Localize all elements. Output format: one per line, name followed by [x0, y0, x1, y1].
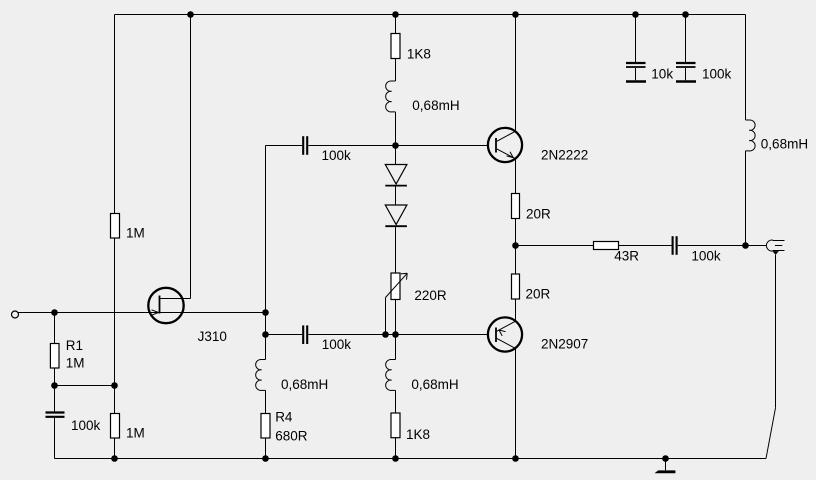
node junction ground — [662, 455, 669, 462]
wire JFET source line — [160, 312, 266, 314]
wire npn emitter drop — [515, 159, 517, 194]
svg-text:0,68mH: 0,68mH — [281, 377, 328, 392]
node junction R1/cap — [51, 382, 58, 389]
wire 43R to cap — [619, 245, 672, 247]
capacitor 100k (mid coupling) — [303, 325, 351, 352]
wire left drop lower — [114, 386, 116, 414]
svg-text:100k: 100k — [691, 248, 721, 263]
node junction 10k cap top — [632, 11, 639, 18]
wire pnp collector drop — [515, 348, 517, 458]
wire drain riser — [190, 15, 192, 299]
wire 1K8 lower to rail — [395, 438, 397, 459]
transistor Q2 2N2907 — [488, 317, 588, 351]
resistor 20R (lower) — [512, 274, 551, 302]
wire pnp base row right — [308, 334, 487, 336]
resistor R1 1M — [50, 338, 84, 371]
wire source column to coil — [265, 335, 267, 360]
wire right column lower — [745, 151, 747, 246]
resistor 1M (left upper) — [111, 214, 145, 241]
wire output node to 43R — [516, 245, 594, 247]
wire right column upper — [745, 15, 747, 121]
svg-text:R4: R4 — [275, 409, 293, 424]
svg-text:43R: 43R — [614, 248, 639, 263]
wire R1 bottom lead — [54, 368, 56, 386]
node junction wiper — [382, 331, 389, 338]
wire mid column to coil2 — [395, 335, 397, 360]
wire 10k cap riser — [635, 15, 637, 63]
node junction bottom mid column — [392, 455, 399, 462]
wire input to gate — [18, 312, 159, 314]
wire 20R to output node — [515, 219, 517, 246]
wire cap row left — [266, 145, 303, 147]
node junction input/R1 — [51, 309, 58, 316]
svg-text:220R: 220R — [414, 288, 447, 303]
node input terminal — [12, 311, 19, 318]
svg-text:100k: 100k — [322, 337, 352, 352]
inductor 0,68mH (right) — [746, 120, 809, 151]
svg-text:0,68mH: 0,68mH — [761, 136, 808, 151]
svg-text:R1: R1 — [66, 338, 83, 353]
svg-text:10k: 10k — [651, 67, 673, 82]
svg-text:20R: 20R — [526, 207, 551, 222]
capacitor 100k (input bypass) — [46, 413, 101, 434]
inductor 0,68mH (source) — [256, 359, 329, 392]
svg-text:20R: 20R — [526, 287, 551, 302]
node junction trimmer/base row — [392, 331, 399, 338]
wire R4 to bottom rail — [265, 438, 267, 459]
wire bottom ground rail — [55, 458, 767, 460]
node junction source — [262, 309, 269, 316]
svg-text:2N2222: 2N2222 — [541, 148, 588, 163]
diode D1 — [385, 165, 407, 186]
wire source down link — [265, 313, 267, 335]
wire trimmer body drop — [395, 300, 397, 335]
svg-text:0,68mH: 0,68mH — [412, 98, 459, 113]
wire 100k cap riser — [685, 15, 687, 63]
svg-text:680R: 680R — [275, 428, 308, 443]
node junction source/cap row — [262, 331, 269, 338]
resistor R4 680R — [261, 409, 308, 443]
wire diodes to trimmer — [395, 227, 397, 273]
svg-text:100k: 100k — [702, 67, 732, 82]
capacitor 100k (to ground) — [676, 63, 732, 82]
wire cap top lead — [54, 386, 56, 412]
svg-text:100k: 100k — [71, 418, 101, 433]
wire diode link — [395, 146, 397, 165]
svg-text:1K8: 1K8 — [406, 427, 430, 442]
node junction left-mid — [111, 382, 118, 389]
wire top supply rail — [115, 14, 746, 16]
wire npn base row — [308, 145, 487, 147]
wire cross link R1 to left column — [55, 385, 115, 387]
svg-text:1K8: 1K8 — [407, 47, 431, 62]
wire left drop upper — [114, 15, 116, 214]
node junction bottom pnp — [512, 455, 519, 462]
svg-text:2N2907: 2N2907 — [541, 337, 588, 352]
wire cap corner vertical — [265, 146, 267, 313]
wire to bottom rail — [114, 438, 116, 459]
node junction 100k cap top — [682, 11, 689, 18]
node junction bottom source column — [262, 455, 269, 462]
wire R1 top lead — [54, 313, 56, 344]
node junction output — [512, 242, 519, 249]
svg-text:0,68mH: 0,68mH — [411, 377, 458, 392]
node junction mid column top — [392, 11, 399, 18]
wire npn collector riser — [515, 15, 517, 132]
node junction output corner — [742, 242, 749, 249]
variable resistor 220R — [386, 273, 447, 303]
connector output jack — [746, 240, 785, 255]
inductor 0,68mH (lower middle) — [386, 359, 459, 392]
wire output node to 20R lower — [515, 246, 517, 275]
wire cap to output corner — [678, 245, 746, 247]
svg-text:1M: 1M — [126, 426, 145, 441]
wire jack diagonal to rail — [766, 408, 776, 459]
wire cap bottom lead — [54, 418, 56, 459]
capacitor 10k (to ground) — [626, 63, 673, 82]
svg-text:100k: 100k — [322, 148, 352, 163]
wire jack ground drop — [775, 255, 777, 408]
resistor 1M (left lower) — [111, 414, 145, 441]
wire wiper drop — [385, 298, 387, 335]
resistor 1K8 (upper) — [391, 34, 431, 62]
wire 20R to pnp emitter — [515, 299, 517, 321]
wire coil2 to 1K8 lower — [395, 390, 397, 413]
node junction npn base row — [392, 142, 399, 149]
node junction drain/top rail — [187, 11, 194, 18]
inductor 0,68mH (upper middle) — [386, 81, 460, 113]
resistor 43R — [594, 242, 640, 264]
transistor J310 JFET — [148, 288, 227, 344]
ground — [655, 459, 676, 474]
wire 1K8 top lead — [395, 15, 397, 34]
resistor 20R (upper) — [512, 194, 552, 222]
wire pnp base row left — [266, 334, 303, 336]
wire coil to base node — [395, 112, 397, 146]
resistor 1K8 (lower) — [391, 413, 430, 442]
svg-text:1M: 1M — [66, 356, 85, 371]
wire 1K8 to coil — [395, 59, 397, 82]
svg-text:J310: J310 — [198, 329, 227, 344]
wire between diodes — [395, 187, 397, 206]
node junction bottom-left — [111, 455, 118, 462]
capacitor 100k (output coupling) — [673, 236, 721, 263]
capacitor 100k (top coupling) — [303, 136, 351, 163]
wire left drop middle — [114, 238, 116, 386]
wire coil to R4 — [265, 390, 267, 413]
diode D2 — [385, 205, 407, 226]
svg-text:1M: 1M — [126, 226, 145, 241]
node junction npn collector/top rail — [512, 11, 519, 18]
transistor Q1 2N2222 — [488, 128, 588, 163]
